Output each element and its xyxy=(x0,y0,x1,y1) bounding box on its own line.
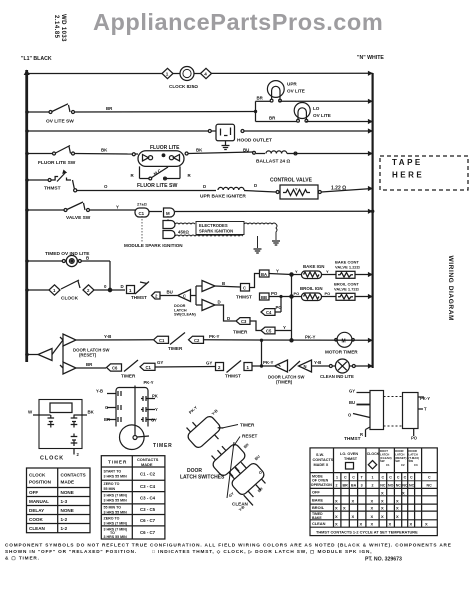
svg-text:Y: Y xyxy=(155,407,158,412)
clock contact diamond 1 xyxy=(162,68,173,78)
lamp UPR OV LITE xyxy=(267,81,284,102)
svg-text:C3 - C5: C3 - C5 xyxy=(140,507,156,512)
svg-text:MADE: MADE xyxy=(141,462,153,467)
svg-text:55 MIN: 55 MIN xyxy=(104,487,116,491)
svg-text:NO: NO xyxy=(402,484,408,488)
value label clock 825 ohm xyxy=(169,84,198,89)
svg-text:BROIL IGN: BROIL IGN xyxy=(300,286,323,291)
TAPE HERE dashed box xyxy=(380,156,468,190)
clock contact diamond 1 xyxy=(49,285,60,295)
wire electrode 1 to ground xyxy=(175,223,277,240)
svg-text:C1: C1 xyxy=(386,463,390,467)
wire row H xyxy=(27,288,125,291)
module terminal M xyxy=(164,208,175,217)
svg-text:"L1" BLACK: "L1" BLACK xyxy=(21,56,52,62)
switch blade thmst row J xyxy=(227,361,242,373)
svg-text:PK-Y: PK-Y xyxy=(144,380,154,385)
svg-text:TIMER: TIMER xyxy=(168,346,183,351)
svg-text:BB: BB xyxy=(261,295,267,300)
svg-text:THMST: THMST xyxy=(344,457,358,461)
clock contact diamond 2 xyxy=(83,285,94,295)
svg-text:GY: GY xyxy=(151,418,157,423)
svg-text:55 MIN TO: 55 MIN TO xyxy=(104,505,122,509)
svg-text:2: 2 xyxy=(218,365,221,370)
svg-text:THMST: THMST xyxy=(236,295,252,300)
timer body xyxy=(116,388,148,450)
svg-text:C3: C3 xyxy=(241,319,247,324)
svg-text:X: X xyxy=(343,506,346,511)
svg-text:LATCH SWITCHES: LATCH SWITCHES xyxy=(180,475,225,481)
svg-text:C6 - C7: C6 - C7 xyxy=(140,530,156,535)
svg-text:"N" WHITE: "N" WHITE xyxy=(357,55,384,61)
X marks xyxy=(335,491,428,527)
timer cam shaft xyxy=(133,386,149,440)
svg-text:Y: Y xyxy=(283,325,286,330)
svg-text:D: D xyxy=(218,300,221,305)
svg-text:RESET: RESET xyxy=(242,434,258,439)
svg-text:CLOCK: CLOCK xyxy=(367,452,380,456)
node N label xyxy=(357,55,384,61)
svg-text:X: X xyxy=(381,514,384,519)
wire row A xyxy=(27,72,373,74)
svg-text:BR: BR xyxy=(269,116,276,121)
timer right pins xyxy=(141,396,155,422)
junction dots on left bus xyxy=(25,72,29,357)
svg-text:1-2: 1-2 xyxy=(61,517,68,522)
svg-text:SW: SW xyxy=(380,459,385,463)
svg-text:PK-Y: PK-Y xyxy=(188,405,199,415)
svg-text:Y: Y xyxy=(326,269,329,274)
svg-text:CLEAN: CLEAN xyxy=(232,502,249,507)
wire label D xyxy=(121,284,124,289)
svg-text:DOOR: DOOR xyxy=(187,468,202,474)
svg-text:FLUOR LITE SW: FLUOR LITE SW xyxy=(137,183,177,189)
svg-text:BU: BU xyxy=(254,454,261,461)
spark electrode 2 xyxy=(163,231,175,239)
svg-text:POSITION: POSITION xyxy=(29,480,52,485)
svg-text:Y-B: Y-B xyxy=(210,408,218,416)
svg-text:(RESET): (RESET) xyxy=(79,353,97,358)
clock wire BK xyxy=(74,410,95,416)
timer contact C1 xyxy=(140,363,155,370)
svg-text:SW: SW xyxy=(395,459,400,463)
svg-text:TAPE: TAPE xyxy=(392,158,423,167)
svg-text:Y: Y xyxy=(295,188,298,192)
wire row D xyxy=(27,152,373,154)
switch blade row H xyxy=(61,280,80,289)
thmst lead O xyxy=(348,413,370,418)
spark electrode 1 xyxy=(163,221,175,229)
svg-text:3: 3 xyxy=(361,484,363,488)
control valve box xyxy=(276,185,321,199)
svg-text:2: 2 xyxy=(372,484,374,488)
svg-text:1: 1 xyxy=(53,288,56,293)
svg-text:R: R xyxy=(131,173,135,178)
svg-text:CLOCK: CLOCK xyxy=(61,296,79,302)
svg-text:C6: C6 xyxy=(112,366,118,371)
svg-text:BU: BU xyxy=(349,400,355,405)
wire label Y-B xyxy=(314,360,321,365)
wire from reset node down xyxy=(62,346,64,362)
svg-text:C1 - C2: C1 - C2 xyxy=(140,472,156,477)
svg-text:X: X xyxy=(352,499,355,504)
svg-text:C: C xyxy=(243,286,246,291)
wire row I xyxy=(76,339,373,342)
switch FLUOR LITE SW xyxy=(53,146,75,156)
svg-text:X: X xyxy=(335,514,338,519)
wire BB to broil node xyxy=(269,291,292,298)
svg-text:BK: BK xyxy=(101,148,108,153)
svg-text:MANUAL: MANUAL xyxy=(29,499,49,504)
wire row F xyxy=(27,210,162,212)
svg-text:C3 - C4: C3 - C4 xyxy=(140,496,156,501)
wire label BK xyxy=(196,148,203,153)
svg-text:450Ω: 450Ω xyxy=(178,230,189,235)
svg-text:C: C xyxy=(382,476,385,480)
ground electrode 1 xyxy=(272,241,280,245)
svg-text:BU: BU xyxy=(167,290,173,295)
svg-text:BR: BR xyxy=(86,362,93,367)
thmst lead R xyxy=(360,427,370,437)
table footnote xyxy=(316,529,418,534)
svg-text:ELECTRODES: ELECTRODES xyxy=(199,223,228,228)
svg-text:C4: C4 xyxy=(266,310,272,315)
wire UPR lamp branch xyxy=(256,100,373,102)
svg-text:LO: LO xyxy=(313,106,320,111)
svg-text:C1: C1 xyxy=(146,365,152,370)
svg-text:C3: C3 xyxy=(414,463,418,467)
svg-text:C3 - C4: C3 - C4 xyxy=(140,484,156,489)
svg-text:CLOCK: CLOCK xyxy=(40,456,64,462)
latch switch reset unit xyxy=(207,438,251,482)
svg-text:PT. NO. 329673: PT. NO. 329673 xyxy=(365,557,402,563)
svg-text:OFF: OFF xyxy=(29,490,38,495)
wire broil row xyxy=(292,296,373,298)
svg-text:GY: GY xyxy=(206,361,212,366)
svg-text:COOK: COOK xyxy=(29,517,43,522)
svg-text:W: W xyxy=(28,410,33,415)
svg-text:X: X xyxy=(371,506,374,511)
svg-text:BALLAST 24 Ω: BALLAST 24 Ω xyxy=(256,159,290,165)
svg-text:B: B xyxy=(222,281,225,286)
svg-text:Y-B: Y-B xyxy=(314,360,321,365)
svg-text:BA: BA xyxy=(261,272,267,277)
junction node row J xyxy=(260,340,263,367)
leader RESET xyxy=(233,434,258,448)
wire label B xyxy=(86,256,89,261)
wire label GY right xyxy=(206,361,212,366)
motor timer M xyxy=(335,332,355,347)
svg-text:(TIMER): (TIMER) xyxy=(276,380,293,385)
coil UPR BAKE IGNITER xyxy=(218,187,244,190)
clock motor M1 xyxy=(173,67,194,81)
timer contact C1 xyxy=(154,336,169,343)
thmst contact box C xyxy=(241,284,250,292)
svg-text:C: C xyxy=(428,476,431,480)
svg-text:MADE X: MADE X xyxy=(314,463,329,467)
svg-text:COMPONENT SYMBOLS DO NOT R: COMPONENT SYMBOLS DO NOT REFLECT TRUE CO… xyxy=(5,543,452,548)
switch VALVE SW xyxy=(64,202,90,212)
svg-text:TIMER: TIMER xyxy=(121,374,136,379)
svg-text:NONE: NONE xyxy=(61,490,74,495)
svg-text:1-3: 1-3 xyxy=(61,499,68,504)
thmst contact square 1 xyxy=(127,286,135,294)
svg-text:WD 1033: WD 1033 xyxy=(60,14,66,42)
timer left pins xyxy=(107,391,121,422)
wire C4 to node xyxy=(275,311,281,313)
timer contact C5 xyxy=(261,327,275,334)
wire row G xyxy=(27,261,110,290)
svg-text:T: T xyxy=(361,476,364,480)
svg-text:C1: C1 xyxy=(139,211,145,216)
distribution vertical Y/PO xyxy=(290,273,293,342)
svg-text:C: C xyxy=(397,476,400,480)
svg-text:GY: GY xyxy=(228,491,235,498)
value label 450 ohm xyxy=(178,230,189,235)
wire label BR xyxy=(269,116,276,121)
wire row J xyxy=(76,366,373,368)
svg-text:CONTACTS: CONTACTS xyxy=(61,473,86,478)
svg-text:C: C xyxy=(404,476,407,480)
wire label BR xyxy=(86,362,93,367)
svg-text:OV LITE SW: OV LITE SW xyxy=(46,119,74,125)
svg-text:OV LITE: OV LITE xyxy=(313,113,331,118)
svg-text:M: M xyxy=(166,211,170,216)
svg-text:PO: PO xyxy=(276,305,283,310)
svg-text:SW(CLEAN): SW(CLEAN) xyxy=(174,313,196,317)
svg-text:BA: BA xyxy=(351,484,357,488)
connector BB xyxy=(260,293,270,300)
latch triangle upper (B branch) xyxy=(196,281,215,292)
svg-text:C: C xyxy=(410,476,413,480)
svg-text:THMST CONTACTS 1-2 CYCLE A: THMST CONTACTS 1-2 CYCLE AT SET TEMPERAT… xyxy=(316,529,418,534)
svg-text:BK: BK xyxy=(88,410,95,415)
fluorescent fixture FLUOR LITE xyxy=(132,151,188,167)
svg-text:NONE: NONE xyxy=(61,508,74,513)
svg-text:DELAY: DELAY xyxy=(29,508,44,513)
clock contact 1 xyxy=(48,415,55,428)
svg-text:X: X xyxy=(371,499,374,504)
svg-text:FLUOR LITE SW: FLUOR LITE SW xyxy=(38,160,76,166)
thmst lead PK-Y xyxy=(418,396,430,401)
timer contact C2 xyxy=(189,336,204,343)
leader TIMER xyxy=(222,423,255,429)
svg-text:LO. OVEN: LO. OVEN xyxy=(340,452,358,456)
wire label Y xyxy=(116,205,119,210)
electrodes label box xyxy=(196,222,244,235)
table headers xyxy=(313,452,380,467)
fluor lite sw second pole M.C. xyxy=(140,166,181,180)
svg-text:C2: C2 xyxy=(194,338,200,343)
svg-text:C1: C1 xyxy=(159,338,165,343)
wire left bus L1 xyxy=(25,70,28,362)
subheader row 1 xyxy=(311,475,432,488)
thmst contact square 2 xyxy=(216,363,224,371)
switch blade row I xyxy=(170,333,185,345)
watermark AppliancePartsPros.com xyxy=(93,9,383,35)
svg-text:HERE: HERE xyxy=(392,171,424,180)
thmst left body xyxy=(370,391,384,430)
svg-text:2: 2 xyxy=(87,288,90,293)
svg-text:PK-Y: PK-Y xyxy=(305,335,316,340)
wire label PK-Y right xyxy=(305,335,316,340)
wire label PK-Y xyxy=(209,334,220,339)
label CLEAN xyxy=(232,502,249,507)
svg-text:1: 1 xyxy=(129,288,132,293)
svg-text:THMST: THMST xyxy=(44,186,61,192)
bus top arrow xyxy=(24,70,30,76)
svg-text:2.14.85: 2.14.85 xyxy=(53,15,59,39)
module terminal C1 xyxy=(135,208,149,217)
svg-text:G: G xyxy=(105,405,108,410)
clock contact 3 xyxy=(71,415,78,428)
thmst lead GY xyxy=(349,389,370,394)
svg-text:CLEAN: CLEAN xyxy=(312,521,326,526)
bake control valve xyxy=(336,271,355,278)
lamp LO OV LITE xyxy=(294,103,310,123)
wire right bus N xyxy=(372,73,374,368)
svg-text:MOTOR TIMER: MOTOR TIMER xyxy=(325,350,358,355)
wire label O xyxy=(104,184,108,189)
svg-text:BK: BK xyxy=(196,148,203,153)
svg-text:3 HRS (7 MIN): 3 HRS (7 MIN) xyxy=(104,527,128,531)
svg-text:1.22 Ω: 1.22 Ω xyxy=(331,186,346,192)
stamp date code 2 14 85 WD 1033 xyxy=(53,14,66,42)
svg-text:2: 2 xyxy=(77,452,80,457)
label DOOR LATCH SWITCHES xyxy=(180,468,225,481)
svg-text:PO: PO xyxy=(325,291,331,296)
svg-text:VALVE 1.22Ω: VALVE 1.22Ω xyxy=(335,265,361,270)
label MODULE SPARK IGNITION xyxy=(124,243,183,248)
svg-text:NC: NC xyxy=(427,484,433,488)
svg-text:Y: Y xyxy=(295,269,298,274)
clock label xyxy=(40,456,64,462)
svg-text:Y: Y xyxy=(116,205,119,210)
wire label D xyxy=(203,184,206,189)
svg-text:UPR BAKE IGNITER: UPR BAKE IGNITER xyxy=(200,194,246,200)
thmst square symbol in header xyxy=(346,463,354,470)
svg-text:CLOCK: CLOCK xyxy=(29,473,46,478)
svg-text:ZERO TO: ZERO TO xyxy=(104,516,120,520)
svg-text:SHOWN IN "OFF" OR "RELAXED: SHOWN IN "OFF" OR "RELAXED" POSITION. xyxy=(5,549,137,554)
svg-text:PK-Y: PK-Y xyxy=(420,396,430,401)
svg-text:OPERATION: OPERATION xyxy=(311,483,333,487)
svg-text:X: X xyxy=(425,522,428,527)
svg-text:TIMER: TIMER xyxy=(153,443,173,449)
svg-text:X: X xyxy=(335,522,338,527)
wire label BK xyxy=(101,148,108,153)
wire row F to N bus xyxy=(175,210,374,214)
svg-text:D: D xyxy=(121,284,124,289)
svg-text:Y: Y xyxy=(276,269,279,274)
svg-text:BAKE IGN: BAKE IGN xyxy=(303,264,324,269)
rotated margin label WIRING DIAGRAM xyxy=(447,256,454,322)
svg-text:CLEAN: CLEAN xyxy=(29,526,46,531)
svg-text:CLOCK 825Ω: CLOCK 825Ω xyxy=(169,84,198,89)
svg-text:D: D xyxy=(203,184,206,189)
svg-text:BR: BR xyxy=(104,417,110,422)
svg-text:HOOD OUTLET: HOOD OUTLET xyxy=(237,138,272,144)
wire row C xyxy=(27,130,373,132)
wire C5 to Y node xyxy=(275,325,292,331)
svg-text:BR: BR xyxy=(106,106,113,111)
svg-text:C: C xyxy=(352,476,355,480)
wire jog to BA xyxy=(250,274,260,288)
latch switch clean unit xyxy=(225,456,276,507)
thmst lead BU xyxy=(349,400,370,405)
data rows xyxy=(312,490,326,527)
svg-text:X: X xyxy=(396,506,399,511)
latch wiring labels xyxy=(228,442,264,512)
wire label BR xyxy=(257,96,264,101)
svg-text:FLUOR LITE: FLUOR LITE xyxy=(150,145,180,151)
svg-text:1: 1 xyxy=(247,365,250,370)
wire label D xyxy=(254,183,257,188)
svg-text:BR: BR xyxy=(257,96,264,101)
timer top lead PK-Y xyxy=(144,380,154,385)
clock contact 2 xyxy=(71,434,78,447)
svg-text:C: C xyxy=(344,476,347,480)
svg-text:X: X xyxy=(360,522,363,527)
svg-text:X: X xyxy=(402,491,405,496)
clock assembly box xyxy=(39,400,82,449)
svg-text:TIMER: TIMER xyxy=(240,423,255,428)
clock contact diamond 4 xyxy=(194,68,212,78)
wire label O xyxy=(104,284,107,289)
lamp CLEAN IND LITE xyxy=(329,359,355,373)
clock wire W xyxy=(28,410,51,416)
thmst contact square 2 xyxy=(152,292,161,299)
switch blade row J xyxy=(124,360,138,372)
latch triangle row J xyxy=(60,362,76,374)
latch timer lead labels xyxy=(188,405,219,417)
latch triangle row I second xyxy=(60,334,76,346)
ground for hood outlet xyxy=(222,141,230,150)
svg-text:ZERO TO: ZERO TO xyxy=(104,482,120,486)
svg-text:X: X xyxy=(381,491,384,496)
svg-text:PO: PO xyxy=(411,436,418,441)
svg-text:D: D xyxy=(254,183,257,188)
svg-text:BU: BU xyxy=(243,148,249,153)
svg-text:N: N xyxy=(304,364,307,369)
svg-text:3 HRS 55 MIN: 3 HRS 55 MIN xyxy=(104,498,128,502)
latch triangle timer xyxy=(275,360,288,372)
svg-text:1-2: 1-2 xyxy=(61,526,68,531)
wire bake row xyxy=(292,274,373,276)
svg-text:27±Ω: 27±Ω xyxy=(137,202,148,207)
wire to latch triangle xyxy=(160,290,177,296)
svg-text:SPARK IGNITION: SPARK IGNITION xyxy=(199,229,233,234)
svg-text:& ▢ TIMER.: & ▢ TIMER. xyxy=(5,556,40,561)
svg-text:MODULE SPARK IGNITION: MODULE SPARK IGNITION xyxy=(124,243,183,248)
svg-text:CLEAN IND LITE: CLEAN IND LITE xyxy=(320,374,354,379)
svg-text:PO: PO xyxy=(294,291,300,296)
thmst lead PO xyxy=(411,429,418,441)
svg-text:MADE: MADE xyxy=(61,480,75,485)
svg-text:3 HRS (7 MIN): 3 HRS (7 MIN) xyxy=(104,493,128,497)
thmst lead T xyxy=(418,407,427,412)
wire row E xyxy=(27,180,373,192)
wire C3 to C5 xyxy=(250,321,261,331)
wire LO lamp branch xyxy=(256,121,373,123)
resistor BAKE IGN xyxy=(302,271,322,279)
switch OV LITE SW xyxy=(49,104,75,114)
ground electrode 2 xyxy=(254,249,262,253)
svg-text:TIMER: TIMER xyxy=(233,330,248,335)
node L1 label xyxy=(21,56,52,62)
timer contact C4 xyxy=(261,309,275,316)
svg-text:X: X xyxy=(371,522,374,527)
